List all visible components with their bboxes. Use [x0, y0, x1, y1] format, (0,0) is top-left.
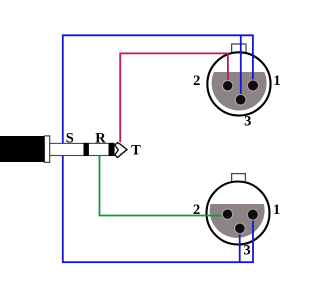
wire tip-to-pin2 top (red)	[120, 53, 228, 142]
pin 1 top XLR	[247, 80, 259, 92]
plug P1 insulator band S/R	[84, 143, 89, 156]
wire branch to pin3 top (blue)	[240, 35, 242, 97]
connector J2 latch tab (top XLR)	[232, 44, 246, 54]
svg-text:1: 1	[273, 73, 280, 89]
svg-text:2: 2	[193, 73, 200, 89]
pin 2 top XLR	[222, 80, 234, 92]
pin 3 bottom XLR	[234, 222, 246, 234]
svg-text:T: T	[131, 143, 141, 159]
wire sleeve-to-pin1 bottom (blue)	[63, 156, 253, 263]
plug P1 insulator band R/T	[109, 143, 115, 156]
connector J3 latch tab (bottom XLR)	[232, 174, 246, 183]
connector J3 insert face	[210, 183, 265, 238]
wire sleeve-to-pin1 top (blue)	[63, 35, 253, 143]
svg-text:S: S	[66, 130, 74, 146]
wire ring-to-pin2 bottom (green)	[100, 156, 225, 216]
plug P1 tip T	[115, 143, 127, 158]
plug P1 collar	[45, 136, 50, 162]
svg-text:1: 1	[273, 202, 280, 218]
connector J2 insert face	[212, 56, 267, 111]
svg-text:3: 3	[243, 243, 250, 259]
plug P1 shaft sleeve S	[50, 143, 115, 155]
svg-text:R: R	[95, 130, 106, 146]
connector J2 shell (top XLR female)	[207, 52, 270, 115]
svg-text:2: 2	[193, 202, 200, 218]
plug P1 body (3.5mm TRS)	[0, 136, 45, 162]
pin 3 top XLR	[235, 94, 247, 106]
connector J3 shell (bottom XLR female)	[207, 182, 270, 245]
pin 2 bottom XLR	[222, 208, 234, 220]
wire branch to pin3 bottom (blue)	[239, 226, 241, 262]
svg-text:3: 3	[244, 114, 251, 130]
pin 1 bottom XLR	[247, 209, 259, 221]
